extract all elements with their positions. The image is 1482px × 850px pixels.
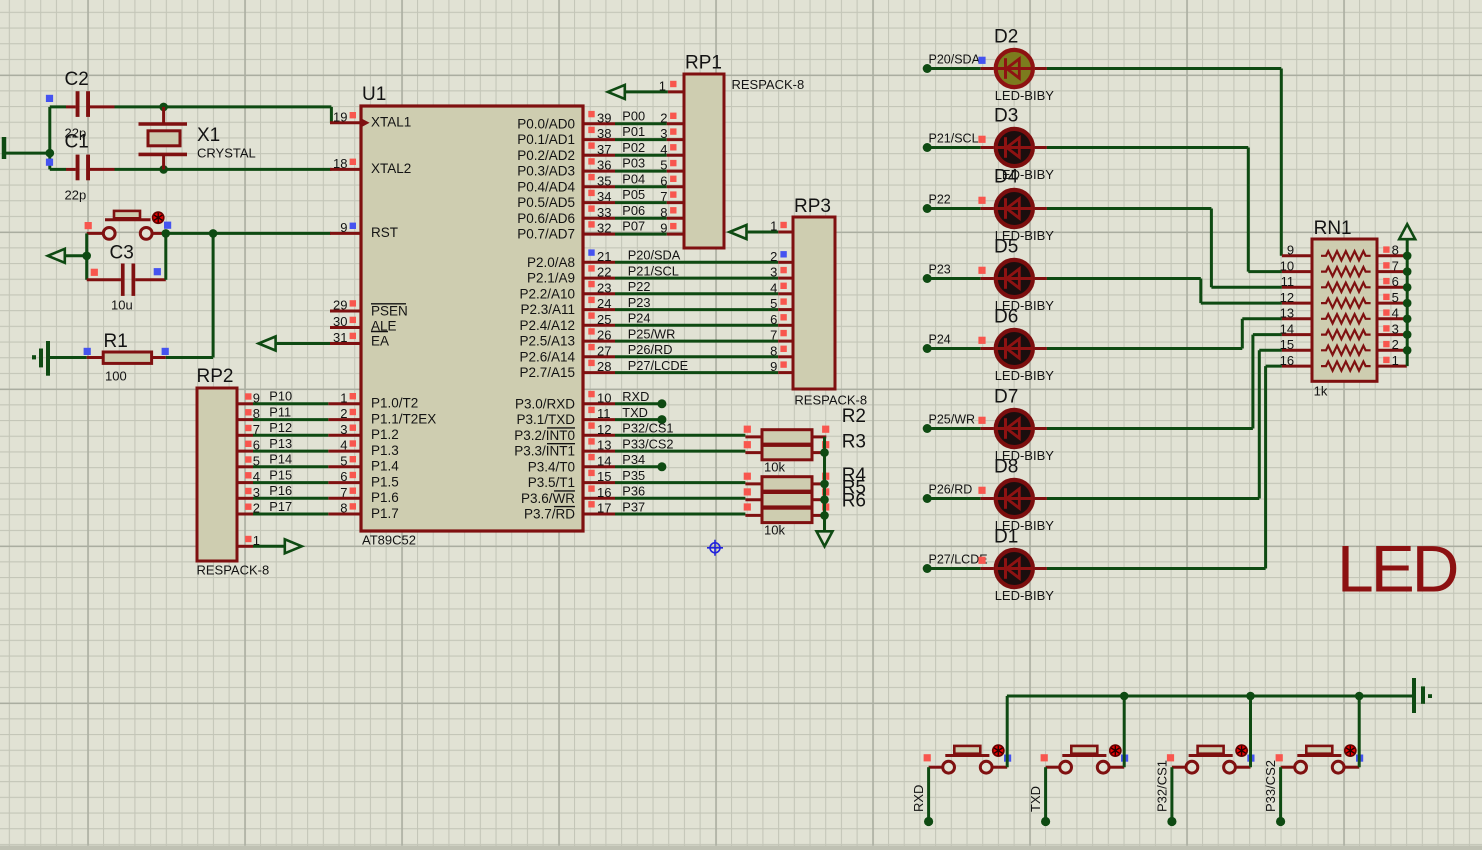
U1 pin 17 P3.7 / wire P37 xyxy=(583,513,615,516)
svg-text:29: 29 xyxy=(333,298,347,313)
terminal arrow RP3 pin1 xyxy=(730,225,747,239)
svg-text:P24: P24 xyxy=(628,311,651,326)
button SW2 (TXD) xyxy=(1071,746,1097,754)
svg-text:22: 22 xyxy=(597,265,611,280)
LED D1 (P27/LCDE) xyxy=(923,564,932,573)
RN1 resistor zigzags xyxy=(1321,251,1371,260)
U1 pin 15 P3.5 / wire P35 xyxy=(583,481,615,484)
node RN1 rail 8 xyxy=(1403,252,1412,261)
svg-text:39: 39 xyxy=(597,110,611,125)
svg-text:12: 12 xyxy=(597,422,611,437)
U1 pin 34 P0.5 / wire P05 / RP1 pin 7 xyxy=(583,201,615,204)
svg-text:P26/RD: P26/RD xyxy=(628,342,673,357)
svg-text:30: 30 xyxy=(333,314,347,329)
svg-text:P23: P23 xyxy=(628,295,651,310)
RN1 pin 16 / pin 1 xyxy=(1282,365,1312,368)
svg-text:8: 8 xyxy=(253,406,260,421)
svg-text:P1.6: P1.6 xyxy=(371,490,399,505)
svg-text:23: 23 xyxy=(597,280,611,295)
svg-text:1: 1 xyxy=(770,219,777,234)
U1 pin 11 P3.1 / wire TXD xyxy=(583,418,615,421)
svg-text:2: 2 xyxy=(1392,337,1399,352)
terminal arrow RP1 pin1 xyxy=(608,85,625,99)
svg-text:5: 5 xyxy=(253,453,260,468)
svg-text:TXD: TXD xyxy=(1028,786,1043,812)
ground left xyxy=(46,341,50,376)
svg-text:P32/CS1: P32/CS1 xyxy=(1154,760,1169,812)
U1 pin 1 P1.0 / wire P10 / RP2 pin 9 xyxy=(328,402,361,405)
svg-text:EA: EA xyxy=(371,334,389,349)
svg-text:3: 3 xyxy=(253,485,260,500)
resistor R4 xyxy=(745,482,762,485)
svg-text:P1.7: P1.7 xyxy=(371,506,399,521)
marker R1 blue square left xyxy=(84,348,91,355)
RN1 pin 10 / pin 7 xyxy=(1282,270,1312,273)
U1 pin 8 P1.7 / wire P17 / RP2 pin 2 xyxy=(328,513,361,516)
svg-text:RP3: RP3 xyxy=(794,196,831,217)
svg-text:6: 6 xyxy=(1392,274,1399,289)
U1 pin 5 P1.4 / wire P14 / RP2 pin 5 xyxy=(328,465,361,468)
svg-text:16: 16 xyxy=(597,485,611,500)
terminal arrow RP2 pin1 xyxy=(285,539,302,553)
svg-text:36: 36 xyxy=(597,158,611,173)
U1 pin 22 P2.1 / wire P21/SCL / RP3 pin 3 xyxy=(583,277,615,280)
svg-text:P25/WR: P25/WR xyxy=(628,327,676,342)
terminal arrow reset xyxy=(64,254,87,257)
svg-text:15: 15 xyxy=(597,469,611,484)
svg-text:2: 2 xyxy=(253,501,260,516)
svg-text:D7: D7 xyxy=(994,387,1018,408)
svg-text:5: 5 xyxy=(660,158,667,173)
svg-text:8: 8 xyxy=(340,501,347,516)
svg-text:D3: D3 xyxy=(994,106,1018,127)
svg-text:7: 7 xyxy=(770,328,777,343)
svg-text:P34: P34 xyxy=(622,452,645,467)
RP3 pin 1 xyxy=(778,231,793,234)
node power/C1/C2 junction xyxy=(46,149,55,158)
svg-text:P3.2/INT0: P3.2/INT0 xyxy=(514,428,575,443)
svg-text:33: 33 xyxy=(597,205,611,220)
U1 pin 24 P2.3 / wire P23 / RP3 pin 5 xyxy=(583,308,615,311)
marker reset blue square xyxy=(164,222,171,229)
origin marker xyxy=(707,540,723,556)
svg-text:10k: 10k xyxy=(764,523,785,538)
node RN1 rail 6 xyxy=(1403,283,1412,292)
U1 pin 23 P2.2 / wire P22 / RP3 pin 4 xyxy=(583,292,615,295)
ground bottom right xyxy=(1412,678,1416,713)
svg-text:P33/CS2: P33/CS2 xyxy=(622,437,673,452)
U1 pin 6 P1.5 / wire P15 / RP2 pin 4 xyxy=(328,481,361,484)
capacitor C1 xyxy=(50,168,66,171)
svg-text:C3: C3 xyxy=(110,243,134,264)
svg-text:6: 6 xyxy=(340,469,347,484)
resistor-pack RP3 body xyxy=(793,217,835,389)
U1 pin 36 P0.3 / wire P03 / RP1 pin 5 xyxy=(583,170,615,173)
svg-text:P20/SDA: P20/SDA xyxy=(929,52,981,66)
svg-text:P06: P06 xyxy=(622,203,645,218)
marker C2 blue square xyxy=(46,95,53,102)
svg-text:RST: RST xyxy=(371,225,398,240)
svg-text:1: 1 xyxy=(1392,353,1399,368)
wire RN1 common rail xyxy=(1406,239,1409,366)
U1 pin 13 P3.3 / wire P33/CS2 xyxy=(583,450,615,453)
svg-text:RN1: RN1 xyxy=(1314,218,1352,239)
U1 pin 7 P1.6 / wire P16 / RP2 pin 3 xyxy=(328,497,361,500)
U1 pin 4 P1.3 / wire P13 / RP2 pin 6 xyxy=(328,450,361,453)
svg-text:P0.2/AD2: P0.2/AD2 xyxy=(517,148,575,163)
svg-text:P22: P22 xyxy=(929,192,951,206)
svg-text:R1: R1 xyxy=(104,331,128,352)
button SW4 (P33/CS2) xyxy=(1306,746,1332,754)
resistor R6 xyxy=(745,514,762,517)
RN1 pin 15 / pin 2 xyxy=(1282,349,1312,352)
svg-text:17: 17 xyxy=(597,501,611,516)
wire ground to R1 xyxy=(48,356,87,359)
resistor R5 xyxy=(745,498,762,501)
U1 pin 2 P1.1 / wire P11 / RP2 pin 8 xyxy=(328,418,361,421)
svg-text:P23: P23 xyxy=(929,262,951,276)
U1 pin 10 P3.0 / wire RXD xyxy=(583,402,615,405)
svg-text:P3.1/TXD: P3.1/TXD xyxy=(516,412,575,427)
svg-text:35: 35 xyxy=(597,173,611,188)
svg-text:13: 13 xyxy=(597,438,611,453)
U1 pin 16 P3.6 / wire P36 xyxy=(583,497,615,500)
U1 pin 33 P0.6 / wire P06 / RP1 pin 8 xyxy=(583,217,615,220)
U1 pin 39 P0.0 / wire P00 / RP1 pin 2 xyxy=(583,122,615,125)
U1 pin 18 XTAL2 xyxy=(330,168,361,171)
reset button actuator xyxy=(114,211,140,218)
svg-text:4: 4 xyxy=(660,142,667,157)
svg-text:X1: X1 xyxy=(197,125,220,146)
svg-text:3: 3 xyxy=(1392,321,1399,336)
svg-text:4: 4 xyxy=(253,469,260,484)
U1 pin 37 P0.2 / wire P02 / RP1 pin 4 xyxy=(583,154,615,157)
svg-text:19: 19 xyxy=(333,109,347,124)
svg-text:P24: P24 xyxy=(929,332,951,346)
svg-text:D5: D5 xyxy=(994,237,1018,258)
resistor R1 xyxy=(87,356,104,359)
svg-text:P20/SDA: P20/SDA xyxy=(628,248,681,263)
svg-text:11: 11 xyxy=(597,406,611,421)
svg-text:P07: P07 xyxy=(622,219,645,234)
svg-text:P3.4/T0: P3.4/T0 xyxy=(528,459,575,474)
svg-text:9: 9 xyxy=(1287,243,1294,258)
svg-text:8: 8 xyxy=(1392,243,1399,258)
svg-text:P16: P16 xyxy=(269,483,292,498)
svg-text:P00: P00 xyxy=(622,108,645,123)
svg-text:38: 38 xyxy=(597,126,611,141)
node R4 common xyxy=(820,480,829,489)
svg-text:P27/LCDE: P27/LCDE xyxy=(628,358,688,373)
U1 pin 28 P2.7 / wire P27/LCDE / RP3 pin 9 xyxy=(583,371,615,374)
svg-text:LED-BIBY: LED-BIBY xyxy=(995,588,1055,603)
marker C3 blue square xyxy=(154,268,161,275)
svg-text:P1.0/T2: P1.0/T2 xyxy=(371,396,418,411)
svg-text:P22: P22 xyxy=(628,279,651,294)
marker reset red square xyxy=(85,222,92,229)
U1 pin 12 P3.2 / wire P32/CS1 xyxy=(583,434,615,437)
button SW3 (P32/CS1) xyxy=(1198,746,1224,754)
svg-text:15: 15 xyxy=(1280,337,1294,352)
wire button left down xyxy=(85,233,88,279)
svg-text:D6: D6 xyxy=(994,307,1018,328)
svg-text:9: 9 xyxy=(660,221,667,236)
RN1 pin 14 / pin 3 xyxy=(1282,333,1312,336)
svg-text:P21/SCL: P21/SCL xyxy=(929,131,979,145)
wire power to junction xyxy=(4,152,50,155)
U1 pin 26 P2.5 / wire P25/WR / RP3 pin 7 xyxy=(583,340,615,343)
svg-text:P3.3/INT1: P3.3/INT1 xyxy=(514,444,575,459)
svg-text:31: 31 xyxy=(333,330,347,345)
button SW1 (RXD) xyxy=(954,746,980,754)
svg-text:14: 14 xyxy=(1280,321,1294,336)
svg-text:2: 2 xyxy=(340,406,347,421)
node RN1 rail 7 xyxy=(1403,267,1412,276)
U1 pin 3 P1.2 / wire P12 / RP2 pin 7 xyxy=(328,434,361,437)
wire RST net xyxy=(166,232,331,235)
wire resistor common xyxy=(823,437,826,531)
U1 pin 19 XTAL1 xyxy=(330,121,361,124)
resistor R2 xyxy=(745,435,762,438)
resistor-pack RP2 body xyxy=(197,388,237,561)
wire C3 right up xyxy=(164,233,167,279)
svg-text:P3.5/T1: P3.5/T1 xyxy=(528,475,575,490)
svg-text:7: 7 xyxy=(340,485,347,500)
svg-text:22p: 22p xyxy=(65,188,87,203)
wire button bus xyxy=(1007,695,1414,698)
svg-text:P33/CS2: P33/CS2 xyxy=(1263,760,1278,812)
svg-text:P2.2/A10: P2.2/A10 xyxy=(519,286,575,301)
svg-text:3: 3 xyxy=(770,265,777,280)
svg-text:7: 7 xyxy=(660,189,667,204)
svg-text:P37: P37 xyxy=(622,499,645,514)
svg-text:P1.3: P1.3 xyxy=(371,443,399,458)
resistor R3 xyxy=(745,451,762,454)
svg-text:C2: C2 xyxy=(65,69,89,90)
svg-text:32: 32 xyxy=(597,221,611,236)
resistor-pack RP1 body xyxy=(684,74,724,248)
U1 pin 38 P0.1 / wire P01 / RP1 pin 3 xyxy=(583,138,615,141)
svg-text:P0.0/AD0: P0.0/AD0 xyxy=(517,116,575,131)
svg-text:1: 1 xyxy=(253,533,260,548)
svg-text:LED: LED xyxy=(1337,532,1457,606)
svg-text:P05: P05 xyxy=(622,187,645,202)
svg-text:P3.7/RD: P3.7/RD xyxy=(524,507,575,522)
U1 pin 31 EA xyxy=(330,342,361,345)
node terminal branch xyxy=(82,252,91,261)
RP2 pin 1 xyxy=(237,545,253,548)
svg-text:100: 100 xyxy=(105,369,127,384)
LED D5 (P23) xyxy=(923,274,932,283)
LED D8 (P26/RD) xyxy=(923,494,932,503)
wire R1 to RST xyxy=(166,356,213,359)
svg-text:1k: 1k xyxy=(1314,384,1328,399)
svg-text:4: 4 xyxy=(1392,306,1399,321)
svg-text:RESPACK-8: RESPACK-8 xyxy=(197,563,270,578)
svg-text:P13: P13 xyxy=(269,436,292,451)
svg-text:26: 26 xyxy=(597,328,611,343)
svg-text:8: 8 xyxy=(660,205,667,220)
svg-text:P21/SCL: P21/SCL xyxy=(628,264,679,279)
svg-text:P2.4/A12: P2.4/A12 xyxy=(519,318,575,333)
marker C3 red square xyxy=(91,269,98,276)
svg-text:P2.0/A8: P2.0/A8 xyxy=(527,255,575,270)
svg-text:D8: D8 xyxy=(994,457,1018,478)
svg-text:2: 2 xyxy=(660,110,667,125)
marker C1 blue square xyxy=(46,159,53,166)
svg-text:P0.7/AD7: P0.7/AD7 xyxy=(517,227,575,242)
capacitor C3 xyxy=(87,278,121,281)
U1 pin 21 P2.0 / wire P20/SDA / RP3 pin 2 xyxy=(583,261,615,264)
svg-text:13: 13 xyxy=(1280,306,1294,321)
RN1 pin 12 / pin 5 xyxy=(1282,302,1312,305)
wire C1C2 vertical xyxy=(48,107,51,169)
svg-text:P14: P14 xyxy=(269,452,292,467)
svg-text:P12: P12 xyxy=(269,420,292,435)
svg-text:9: 9 xyxy=(770,359,777,374)
svg-text:RXD: RXD xyxy=(622,389,649,404)
node R3 common xyxy=(820,448,829,457)
LED D2 (P20/SDA) xyxy=(923,64,932,73)
U1 pin 29 PSEN xyxy=(330,310,361,313)
svg-text:12: 12 xyxy=(1280,290,1294,305)
svg-text:R6: R6 xyxy=(842,490,866,511)
svg-text:4: 4 xyxy=(340,438,347,453)
svg-text:7: 7 xyxy=(253,422,260,437)
svg-text:1: 1 xyxy=(659,78,666,93)
svg-text:P11: P11 xyxy=(269,404,291,419)
svg-text:U1: U1 xyxy=(362,84,386,105)
svg-text:21: 21 xyxy=(597,249,611,264)
svg-text:5: 5 xyxy=(770,296,777,311)
U1 pin 25 P2.4 / wire P24 / RP3 pin 6 xyxy=(583,324,615,327)
node RN1 rail 2 xyxy=(1403,346,1412,355)
svg-text:P02: P02 xyxy=(622,140,645,155)
svg-text:D1: D1 xyxy=(994,527,1018,548)
svg-text:11: 11 xyxy=(1281,274,1295,289)
reset button indicator xyxy=(153,212,164,223)
svg-text:RP2: RP2 xyxy=(197,366,234,387)
RN1 pin 11 / pin 6 xyxy=(1282,286,1312,289)
svg-text:LED-BIBY: LED-BIBY xyxy=(995,368,1055,383)
svg-text:8: 8 xyxy=(770,343,777,358)
svg-text:AT89C52: AT89C52 xyxy=(362,533,416,548)
wire C2 to XTAL1 xyxy=(115,105,332,108)
svg-text:P3.0/RXD: P3.0/RXD xyxy=(515,396,575,411)
svg-text:P2.6/A14: P2.6/A14 xyxy=(519,349,575,364)
U1 pin 30 ALE xyxy=(330,326,361,329)
power terminal left edge xyxy=(2,137,7,159)
svg-text:6: 6 xyxy=(770,312,777,327)
crystal X1 xyxy=(162,107,165,124)
svg-text:P01: P01 xyxy=(622,124,645,139)
svg-text:R2: R2 xyxy=(842,406,866,427)
svg-text:P10: P10 xyxy=(269,389,292,404)
svg-text:5: 5 xyxy=(340,453,347,468)
svg-text:RESPACK-8: RESPACK-8 xyxy=(732,77,805,92)
svg-text:27: 27 xyxy=(597,343,611,358)
svg-text:P26/RD: P26/RD xyxy=(929,482,973,496)
svg-text:RXD: RXD xyxy=(911,785,926,812)
svg-text:P2.1/A9: P2.1/A9 xyxy=(527,271,575,286)
svg-text:P32/CS1: P32/CS1 xyxy=(622,421,673,436)
svg-text:16: 16 xyxy=(1280,353,1294,368)
svg-text:P36: P36 xyxy=(622,484,645,499)
reset button contacts xyxy=(103,228,115,240)
node crystal bottom xyxy=(159,165,168,174)
svg-text:10k: 10k xyxy=(764,459,785,474)
svg-text:P25/WR: P25/WR xyxy=(929,412,976,426)
svg-text:P35: P35 xyxy=(622,468,645,483)
svg-text:P3.6/WR: P3.6/WR xyxy=(521,491,575,506)
svg-text:3: 3 xyxy=(340,422,347,437)
svg-text:37: 37 xyxy=(597,142,611,157)
svg-text:2: 2 xyxy=(770,249,777,264)
svg-text:10: 10 xyxy=(597,390,611,405)
ground arrow resistors xyxy=(817,531,833,546)
svg-text:P04: P04 xyxy=(622,171,645,186)
svg-text:18: 18 xyxy=(333,156,347,171)
svg-text:XTAL1: XTAL1 xyxy=(371,115,411,130)
node RN1 rail 3 xyxy=(1403,330,1412,339)
svg-text:9: 9 xyxy=(340,220,347,235)
svg-text:CRYSTAL: CRYSTAL xyxy=(197,146,256,161)
svg-text:4: 4 xyxy=(770,280,777,295)
LED D4 (P22) xyxy=(923,204,932,213)
wire C1 to XTAL2 xyxy=(115,168,332,171)
svg-text:3: 3 xyxy=(660,126,667,141)
svg-text:P15: P15 xyxy=(269,467,292,482)
U1 pin 35 P0.4 / wire P04 / RP1 pin 6 xyxy=(583,185,615,188)
svg-text:D4: D4 xyxy=(994,167,1019,188)
op U1 body AT89C52 xyxy=(361,106,583,531)
node RST branch xyxy=(209,229,218,238)
svg-text:P0.6/AD6: P0.6/AD6 xyxy=(517,211,575,226)
svg-text:P1.1/T2EX: P1.1/T2EX xyxy=(371,411,436,426)
node R6 common xyxy=(820,511,829,520)
svg-text:P0.3/AD3: P0.3/AD3 xyxy=(517,164,575,179)
svg-text:7: 7 xyxy=(1392,258,1399,273)
LED D6 (P24) xyxy=(923,344,932,353)
svg-text:5: 5 xyxy=(1392,290,1399,305)
svg-text:P2.7/A15: P2.7/A15 xyxy=(519,365,575,380)
svg-text:P1.4: P1.4 xyxy=(371,459,399,474)
svg-text:9: 9 xyxy=(253,390,260,405)
svg-text:10: 10 xyxy=(1280,258,1294,273)
node button right xyxy=(162,229,171,238)
svg-text:R3: R3 xyxy=(842,432,866,453)
node RN1 rail 5 xyxy=(1403,299,1412,308)
svg-text:1: 1 xyxy=(340,390,347,405)
svg-text:P2.3/A11: P2.3/A11 xyxy=(520,302,575,317)
RP1 pin 1 xyxy=(668,90,684,93)
svg-text:XTAL2: XTAL2 xyxy=(371,161,411,176)
RN1 pin 13 / pin 4 xyxy=(1282,317,1312,320)
svg-text:P03: P03 xyxy=(622,156,645,171)
node RN1 rail 4 xyxy=(1403,315,1412,324)
svg-text:P1.2: P1.2 xyxy=(371,427,399,442)
U1 pin 14 P3.4 / wire P34 xyxy=(583,465,615,468)
U1 pin 32 P0.7 / wire P07 / RP1 pin 9 xyxy=(583,233,615,236)
capacitor C2 xyxy=(50,105,66,108)
terminal arrow EA xyxy=(259,337,276,351)
svg-text:34: 34 xyxy=(597,189,611,204)
node crystal top xyxy=(159,103,168,112)
node R5 common xyxy=(820,495,829,504)
svg-text:P0.4/AD4: P0.4/AD4 xyxy=(517,179,575,194)
svg-text:P17: P17 xyxy=(269,499,292,514)
svg-text:P0.1/AD1: P0.1/AD1 xyxy=(517,132,575,147)
